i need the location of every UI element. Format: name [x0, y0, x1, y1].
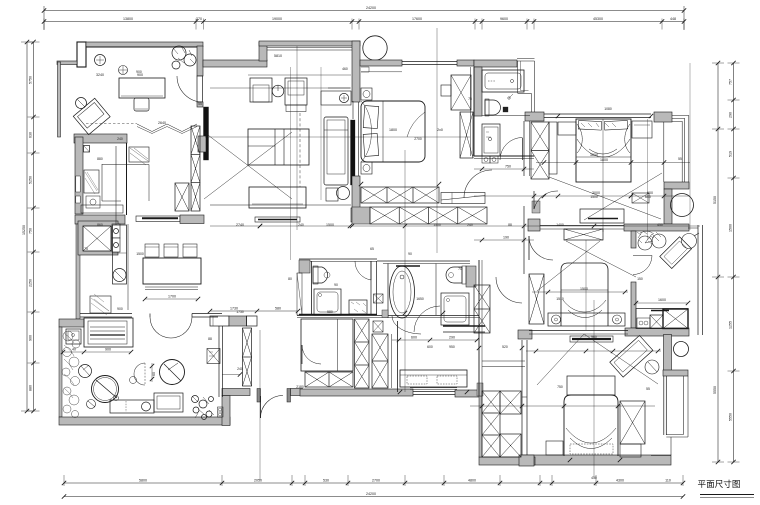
corridor south edge — [297, 315, 479, 317]
svg-text:55: 55 — [646, 387, 650, 391]
dining table — [143, 258, 201, 284]
svg-text:3600: 3600 — [590, 153, 598, 157]
ext line v7 — [647, 119, 649, 240]
svg-text:2180: 2180 — [296, 385, 304, 389]
study left wall — [58, 62, 61, 137]
svg-text:190: 190 — [503, 236, 509, 240]
svg-text:110: 110 — [665, 479, 671, 483]
svg-text:15250: 15250 — [22, 225, 26, 235]
dining bench — [136, 216, 180, 222]
kitchen sink small — [86, 196, 100, 208]
wall east room bottom — [625, 328, 689, 336]
svg-text:1080: 1080 — [604, 107, 612, 111]
svg-text:1500: 1500 — [136, 252, 144, 256]
dining chairs top — [145, 244, 159, 257]
study top wall inner line — [86, 47, 197, 49]
wall living bay top — [259, 41, 360, 46]
svg-text:2250: 2250 — [29, 279, 33, 287]
bedroomC sight diagonals — [566, 241, 636, 277]
NE pillows — [578, 120, 601, 130]
bath2 pier — [299, 260, 310, 273]
east counter — [636, 309, 688, 329]
dressing west wall — [397, 321, 399, 392]
wall closet bottom — [479, 457, 535, 465]
svg-text:150: 150 — [637, 277, 643, 281]
svg-text:2050: 2050 — [254, 479, 262, 483]
wardrobe cabinet corridor wardrobe E — [529, 274, 544, 324]
SE pillow — [570, 444, 613, 454]
svg-text:600: 600 — [411, 336, 417, 340]
wardrobe cabinet SE wardrobe — [620, 401, 645, 444]
svg-text:90: 90 — [408, 252, 412, 256]
kitchen counter lines — [115, 146, 117, 225]
wall dining niche pier — [180, 215, 204, 224]
bedroomC door arc — [529, 236, 553, 260]
svg-text:750: 750 — [29, 228, 33, 234]
svg-text:5250: 5250 — [29, 176, 33, 184]
svg-text:290: 290 — [729, 112, 733, 118]
wall south wall at entry east — [291, 389, 303, 396]
wall living right column — [352, 41, 360, 102]
bath1 vanity — [482, 124, 500, 156]
mbath toilet — [446, 267, 462, 283]
SE bed folds — [566, 428, 616, 449]
svg-text:3240: 3240 — [96, 73, 104, 77]
entry closet — [207, 349, 220, 364]
svg-text:900: 900 — [136, 70, 142, 74]
bedroomC bed — [561, 263, 608, 326]
svg-text:1500: 1500 — [580, 287, 588, 291]
garden big pot — [160, 360, 185, 385]
svg-text:950: 950 — [449, 345, 455, 349]
svg-text:75: 75 — [468, 97, 472, 101]
svg-text:430: 430 — [591, 476, 597, 480]
living side table — [326, 188, 338, 201]
dining rug lines — [145, 286, 198, 288]
bike wheels — [638, 236, 652, 250]
garden round table — [92, 376, 119, 403]
kitchen low cabinet — [81, 205, 123, 213]
wall dining top — [203, 60, 267, 67]
east column circle — [674, 342, 689, 357]
svg-text:9600: 9600 — [500, 17, 508, 21]
wardrobe cabinet east counter cabinet B — [663, 309, 688, 329]
master row2 gray — [352, 207, 370, 224]
svg-text:2x0: 2x0 — [437, 128, 443, 132]
study ceiling light — [95, 55, 106, 66]
wall east vertical jog — [664, 335, 672, 371]
master closet rod — [441, 193, 485, 204]
svg-text:5550: 5550 — [729, 413, 733, 421]
SE balcony outline — [651, 376, 688, 456]
SE nightstand W — [546, 441, 563, 455]
svg-text:70: 70 — [458, 267, 462, 271]
ext line v4 — [259, 330, 261, 480]
wall kitchen left — [75, 137, 83, 214]
mbath small xbox — [374, 294, 384, 303]
svg-text:5750: 5750 — [29, 76, 33, 84]
svg-text:1500: 1500 — [433, 223, 441, 227]
master pillows — [363, 106, 379, 129]
bath1 bottom wall — [474, 155, 534, 157]
svg-text:1400: 1400 — [556, 223, 564, 227]
wall hall gray block A — [229, 316, 247, 326]
living east black bar — [351, 120, 356, 185]
kitchen fridge — [84, 170, 99, 193]
bedroomC top wall — [540, 225, 624, 227]
wardrobe cabinet master wardrobe row2 — [370, 207, 487, 224]
kitchen hatch cabinet — [129, 147, 149, 162]
elevator shaft frame — [78, 221, 118, 255]
svg-text:270: 270 — [196, 17, 202, 21]
master bed — [361, 101, 425, 162]
svg-text:65: 65 — [370, 247, 374, 251]
dimension line bottom overall — [64, 496, 683, 498]
hall dim line — [210, 310, 298, 312]
east rotated box — [660, 237, 692, 269]
svg-text:520: 520 — [502, 345, 508, 349]
mbath door arc — [496, 277, 522, 303]
corridor east wall — [523, 121, 525, 176]
entry pier B — [287, 389, 291, 403]
study plants — [172, 46, 196, 69]
kitchen right wall line — [126, 143, 128, 215]
living sofa chair 1 — [250, 78, 272, 102]
mbath blocks — [466, 266, 476, 287]
master tall wardrobe 2 — [460, 112, 473, 158]
SE west wardrobe doors — [521, 340, 523, 455]
svg-text:1800: 1800 — [389, 128, 397, 132]
bath1 divider line — [482, 115, 530, 117]
NE canopy arcs — [577, 124, 630, 157]
bike scatter — [637, 231, 654, 244]
kitchen corner box — [84, 146, 90, 153]
wall master west wall lower — [352, 176, 360, 208]
wall vestibule east — [222, 396, 230, 426]
garden sink counter — [66, 329, 81, 344]
hall cabinet row east — [247, 316, 258, 326]
wall hall block west — [351, 208, 365, 222]
master top step — [361, 67, 402, 72]
east counter sink — [637, 318, 650, 328]
svg-text:1650: 1650 — [416, 297, 424, 301]
bath1 top thin — [517, 58, 535, 60]
wardrobe cabinet master wardrobe row1 — [361, 187, 439, 203]
ext line v1 — [436, 28, 438, 253]
bath1 window bay — [517, 61, 519, 93]
bedroomC tv cabinet — [564, 229, 603, 240]
bath1 door arc — [500, 138, 523, 161]
svg-text:1800: 1800 — [600, 158, 608, 162]
wall NE east wall — [664, 189, 672, 224]
wall study bottom / kitchen top — [74, 134, 127, 143]
svg-text:17600: 17600 — [412, 17, 422, 21]
wall hall gray block B — [528, 219, 540, 231]
svg-text:1255: 1255 — [729, 321, 733, 329]
NE bed — [576, 119, 631, 182]
svg-text:880: 880 — [97, 157, 103, 161]
wall south wall at SW corner — [455, 390, 481, 397]
svg-text:880: 880 — [29, 385, 33, 391]
svg-text:2700: 2700 — [372, 479, 380, 483]
entry closet dim — [222, 374, 240, 376]
corridor dim line A — [474, 168, 534, 170]
dimension line bottom detail — [64, 482, 683, 484]
svg-text:55: 55 — [198, 102, 202, 106]
SE bench — [567, 376, 615, 395]
wardrobe cabinet laundry low boxes — [305, 372, 353, 387]
living console — [321, 91, 351, 105]
svg-text:1510: 1510 — [556, 297, 564, 301]
NE foot cabinet — [632, 193, 649, 203]
title underline — [700, 494, 754, 496]
svg-text:60: 60 — [152, 372, 156, 376]
SW hall box — [373, 321, 383, 332]
wall study left upper corner — [57, 61, 77, 65]
bath2 walls — [299, 258, 377, 260]
bedroomC bed platform — [548, 313, 625, 326]
wall NE top east — [654, 112, 672, 122]
bedroomC bottom wall — [529, 330, 628, 332]
south bench sill — [410, 387, 457, 389]
study door arc — [177, 76, 203, 102]
bay window glass — [267, 47, 354, 49]
dressing dim line — [392, 339, 478, 341]
living tv — [255, 217, 300, 222]
living sofa back line — [248, 74, 351, 76]
svg-text:580: 580 — [327, 310, 333, 314]
wall garden bottom — [59, 417, 230, 425]
svg-text:460: 460 — [342, 67, 348, 71]
living floor cross — [204, 132, 292, 199]
svg-text:40: 40 — [72, 348, 76, 352]
wardrobe cabinet corridor wardrobe W — [474, 285, 490, 333]
mbath top wall — [377, 260, 470, 262]
SW window — [413, 391, 455, 393]
living chaise — [324, 117, 348, 185]
svg-text:88: 88 — [208, 337, 212, 341]
living col circle — [363, 36, 387, 60]
svg-text:448: 448 — [670, 17, 676, 21]
wall bath1 west — [474, 67, 482, 116]
wall east horizontal jog — [663, 370, 688, 376]
svg-text:5810: 5810 — [274, 54, 282, 58]
garden small circle — [87, 400, 96, 409]
bedroomC speaker left — [552, 315, 561, 324]
dimension line top overall — [44, 10, 684, 12]
mbath bottom wall — [443, 325, 485, 327]
bath-corridor west wall — [478, 260, 480, 396]
black wall bar living west — [204, 107, 209, 160]
bedroomC dim line — [532, 291, 628, 293]
ext line v5 — [296, 46, 298, 230]
mbath gray sw — [382, 310, 388, 318]
interior dim living — [210, 225, 700, 227]
east room right wall — [697, 225, 699, 335]
wardrobe cabinet dining west wardrobe — [175, 183, 189, 211]
svg-text:600: 600 — [645, 195, 651, 199]
NE dim line — [474, 195, 690, 197]
ext line v2 — [404, 150, 406, 392]
SE bed — [564, 395, 618, 456]
bath2 toilet — [313, 267, 328, 283]
svg-text:24200: 24200 — [366, 6, 376, 10]
wardrobe cabinet NE wardrobe at corridor — [531, 122, 549, 179]
living chaise stool — [337, 187, 350, 200]
svg-text:519: 519 — [729, 151, 733, 157]
wall study right base — [198, 136, 206, 152]
living round table — [272, 85, 284, 97]
wardrobe cabinet SW closet top — [500, 391, 521, 414]
wardrobe cabinet SW hall wardrobe — [372, 334, 388, 388]
NE nightstand W — [558, 122, 576, 135]
mbath left wall — [387, 264, 389, 319]
wall east room west wall lower — [631, 282, 636, 328]
east circle item — [682, 234, 697, 249]
svg-text:860: 860 — [97, 223, 103, 227]
wall master top east — [457, 60, 474, 66]
south bench cushions — [407, 376, 427, 384]
svg-text:1730: 1730 — [236, 310, 244, 314]
wall master top — [360, 60, 402, 66]
pantry hatch cabinet — [90, 296, 111, 313]
garden pot — [79, 365, 92, 378]
south bench — [400, 370, 467, 387]
SE corridor lines — [482, 360, 525, 362]
wall east room west wall upper — [631, 231, 636, 248]
interior tick marks — [258, 224, 262, 228]
hall door arc mid — [392, 316, 421, 334]
garden cabinet — [154, 393, 183, 412]
SE tv console — [570, 336, 613, 342]
SE nightstand E — [620, 444, 641, 457]
entry pier A — [257, 389, 261, 403]
wall NE east wall top — [664, 182, 689, 189]
master door arc — [464, 170, 492, 198]
study chair — [134, 98, 149, 111]
east door arc — [633, 256, 652, 275]
NE balcony outline — [664, 116, 689, 183]
wardrobe cabinet living west cabinets — [191, 126, 200, 211]
svg-text:757: 757 — [729, 79, 733, 85]
master tall wardrobe 1 — [451, 75, 471, 110]
garden double door — [150, 317, 192, 338]
SE sight diagonals — [537, 334, 584, 385]
bath1 drain — [508, 97, 510, 99]
dimension line top detail — [44, 21, 684, 23]
NE sight diagonals — [549, 177, 661, 219]
laundry room — [301, 319, 353, 371]
master west window — [358, 102, 360, 176]
svg-text:240: 240 — [117, 137, 123, 141]
svg-text:2700: 2700 — [414, 137, 422, 141]
svg-text:1500: 1500 — [729, 224, 733, 232]
svg-text:90: 90 — [334, 283, 338, 287]
svg-text:13800: 13800 — [123, 17, 133, 21]
svg-text:5550: 5550 — [713, 386, 717, 394]
garden long counter — [84, 318, 133, 347]
entry plants — [192, 396, 215, 420]
NE door arc — [534, 191, 558, 209]
bedroomC bed folds — [563, 300, 606, 318]
svg-text:630: 630 — [29, 132, 33, 138]
elevator cab — [83, 226, 111, 251]
wardrobe cabinet east counter cabinet A — [650, 315, 663, 329]
wall east horizontal wall — [624, 224, 689, 231]
wall study top — [86, 42, 203, 47]
study desk — [119, 78, 165, 98]
svg-text:1600: 1600 — [658, 298, 666, 302]
svg-text:75: 75 — [84, 247, 88, 251]
hall cabinet row west — [210, 316, 229, 326]
svg-text:600: 600 — [427, 345, 433, 349]
svg-text:平面尺寸图: 平面尺寸图 — [698, 478, 741, 489]
master-bed east wall — [473, 67, 475, 156]
corridor east wall lower — [523, 206, 525, 274]
svg-text:240: 240 — [467, 223, 473, 227]
dining dim line — [145, 298, 198, 300]
garden bench — [110, 400, 154, 413]
entry shoe boxes — [218, 407, 224, 417]
master nightstand bottom — [361, 162, 372, 174]
ext line h1 — [205, 136, 470, 138]
living coffee table — [248, 129, 309, 165]
dimension line right detail — [717, 63, 719, 462]
wardrobe cabinet entry tall cabinet — [243, 328, 252, 386]
svg-text:1500: 1500 — [326, 223, 334, 227]
living sofa chair 2 — [285, 78, 307, 105]
garden stool dashed — [134, 363, 145, 385]
NE window — [544, 113, 651, 115]
svg-text:24200: 24200 — [366, 492, 376, 496]
west hall left wall — [76, 224, 80, 319]
svg-text:240: 240 — [237, 367, 243, 371]
svg-text:900: 900 — [117, 307, 123, 311]
svg-text:19000: 19000 — [272, 17, 282, 21]
wall kitchen bottom — [75, 215, 125, 224]
dimension line left overall — [26, 42, 28, 411]
svg-text:4300: 4300 — [616, 479, 624, 483]
corridor door arc bath1 — [524, 190, 548, 214]
pantry cabinet — [113, 225, 127, 284]
wall SE bottom wall — [522, 455, 671, 465]
svg-text:580: 580 — [275, 307, 281, 311]
bath1 tub — [482, 70, 524, 92]
svg-text:290: 290 — [449, 336, 455, 340]
garden window — [80, 313, 132, 315]
garden counter dim — [63, 351, 131, 353]
svg-text:240: 240 — [298, 223, 304, 227]
svg-text:55: 55 — [678, 157, 682, 161]
pantry lines — [127, 224, 129, 310]
bath2 duct — [297, 273, 302, 315]
garden east wall — [218, 326, 220, 397]
svg-text:900: 900 — [105, 348, 111, 352]
wall hall gray block C — [518, 330, 532, 339]
wardrobe cabinet SW closet col — [482, 391, 500, 457]
NE dresser — [580, 209, 624, 223]
wall NE top west — [525, 112, 544, 121]
dining light circle — [119, 66, 128, 75]
SE chaise rotated — [610, 335, 653, 377]
ext line v3 — [602, 119, 604, 232]
svg-text:88: 88 — [508, 223, 512, 227]
svg-text:1500: 1500 — [590, 195, 598, 199]
corridor dim line B — [474, 239, 534, 241]
closet west wall — [479, 396, 482, 457]
SE east wall thin — [663, 376, 665, 435]
NE column circle — [671, 194, 694, 217]
